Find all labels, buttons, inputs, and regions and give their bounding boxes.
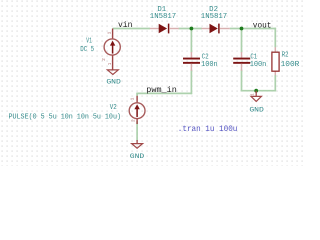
diode D2 — [201, 6, 230, 33]
D1 pin right — [170, 28, 179, 30]
wire vout corner down to R2 — [274, 28, 276, 48]
svg-text:1: 1 — [129, 97, 135, 100]
V1 pin 2 (bottom) — [112, 55, 114, 70]
junction at vout / C1 node — [240, 27, 244, 31]
svg-text:V2: V2 — [110, 104, 117, 112]
svg-text:100n: 100n — [250, 61, 267, 69]
V2 body circle — [129, 103, 145, 119]
resistor R2 — [272, 47, 300, 75]
ground under bottom wire (C1/R2) — [249, 91, 264, 115]
V1 pin 1 (top) — [112, 29, 114, 40]
wire pwm_in horizontal — [136, 92, 192, 94]
wire R2 bottom down — [274, 75, 276, 92]
svg-text:2: 2 — [131, 119, 137, 122]
ground under V2 — [130, 140, 145, 161]
junction at D1-D2 / C2 node — [190, 27, 194, 31]
svg-text:1N5817: 1N5817 — [150, 13, 176, 21]
C1 plate bottom — [233, 62, 250, 64]
svg-text:V1: V1 — [86, 37, 92, 45]
svg-text:1N5817: 1N5817 — [201, 13, 227, 21]
junction at GND on bottom wire — [254, 89, 258, 93]
GND triangle — [107, 70, 118, 75]
svg-text:vout: vout — [253, 21, 272, 30]
wire V2 to GND — [136, 121, 138, 141]
C1 plate top — [233, 58, 250, 60]
GND pin — [255, 91, 257, 97]
C2 plate top — [183, 58, 200, 60]
wire bottom C1 to R2 — [241, 90, 276, 92]
wire pwm corner down to V2 — [136, 93, 138, 96]
D1 cathode bar — [168, 24, 170, 34]
svg-text:R2: R2 — [282, 52, 289, 60]
svg-text:GND: GND — [130, 153, 145, 161]
GND triangle — [251, 96, 261, 101]
R2 body box — [272, 52, 279, 71]
svg-text:GND: GND — [249, 106, 264, 114]
V2 arrow — [136, 108, 138, 117]
svg-text:100R: 100R — [281, 61, 300, 69]
capacitor C1 — [233, 52, 266, 71]
svg-text:C1: C1 — [250, 53, 257, 61]
V2 pin 1 (top) — [136, 96, 138, 103]
C2 pin top — [190, 52, 192, 58]
R2 pin bottom — [274, 71, 276, 75]
V2 pin 2 (bottom) — [136, 119, 138, 124]
D1 pin left — [150, 28, 159, 30]
svg-text:pwm_in: pwm_in — [146, 85, 177, 95]
D1 triangle — [159, 24, 167, 33]
wire D1 to D2 (through junction) — [179, 28, 202, 30]
D2 cathode bar — [218, 24, 220, 34]
capacitor C2 — [183, 52, 218, 71]
diode D1 — [150, 6, 179, 33]
svg-text:100n: 100n — [201, 61, 218, 69]
svg-text:DC 5: DC 5 — [80, 46, 94, 54]
voltage source V1 — [80, 29, 120, 70]
svg-text:2: 2 — [101, 58, 107, 61]
svg-text:PULSE(0 5 5u 10n 10n 5u 10u): PULSE(0 5 5u 10n 10n 5u 10u) — [9, 113, 122, 121]
svg-text:vin: vin — [118, 20, 132, 30]
C2 plate bottom — [183, 62, 200, 64]
svg-text:C2: C2 — [202, 53, 209, 61]
V1 body circle — [104, 39, 120, 55]
svg-text:.tran 1u 100u: .tran 1u 100u — [178, 126, 238, 134]
C1 pin bottom — [241, 64, 243, 71]
D2 pin right — [220, 28, 230, 30]
GND triangle — [132, 144, 143, 149]
ground under V1 — [106, 62, 121, 86]
GND pin — [136, 140, 138, 144]
R2 pin top — [274, 47, 276, 52]
wire junction down to C2 — [190, 29, 192, 53]
svg-text:1: 1 — [107, 31, 113, 34]
V1 arrow — [112, 45, 114, 54]
wire C2 bottom down to pwm corner — [190, 70, 192, 95]
voltage source V2 — [9, 96, 146, 124]
wire junction down to C1 — [241, 29, 243, 53]
wire vin: top horizontal from V1 to D1 — [113, 28, 150, 30]
wire C1 bottom down — [241, 70, 243, 92]
svg-text:GND: GND — [106, 78, 121, 86]
C2 pin bottom — [190, 64, 192, 71]
D2 pin left — [202, 28, 210, 30]
wire D2 to vout corner — [230, 28, 276, 30]
C1 pin top — [241, 52, 243, 58]
D2 triangle — [210, 24, 218, 33]
